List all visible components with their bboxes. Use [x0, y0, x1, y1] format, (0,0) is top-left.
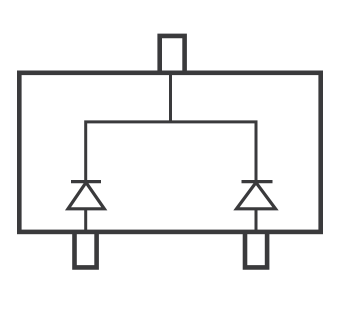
wire: D2 anode to pin 2 — [255, 209, 258, 231]
pin 3 (top tab) — [160, 36, 185, 75]
wire: D1 anode to pin 1 — [84, 209, 87, 231]
diode D1 cathode bar — [71, 180, 101, 183]
diode D1 triangle (anode) — [68, 183, 104, 209]
pin 2 (bottom-right tab) — [245, 231, 267, 268]
diode D2 cathode bar — [242, 180, 273, 183]
wire: stub from pin 3 to branch — [169, 74, 172, 122]
wire: branch to both diode cathodes — [86, 122, 256, 182]
diode D2 triangle (anode) — [237, 183, 276, 209]
pin 1 (bottom-left tab) — [75, 231, 97, 268]
package body outline — [19, 73, 320, 232]
